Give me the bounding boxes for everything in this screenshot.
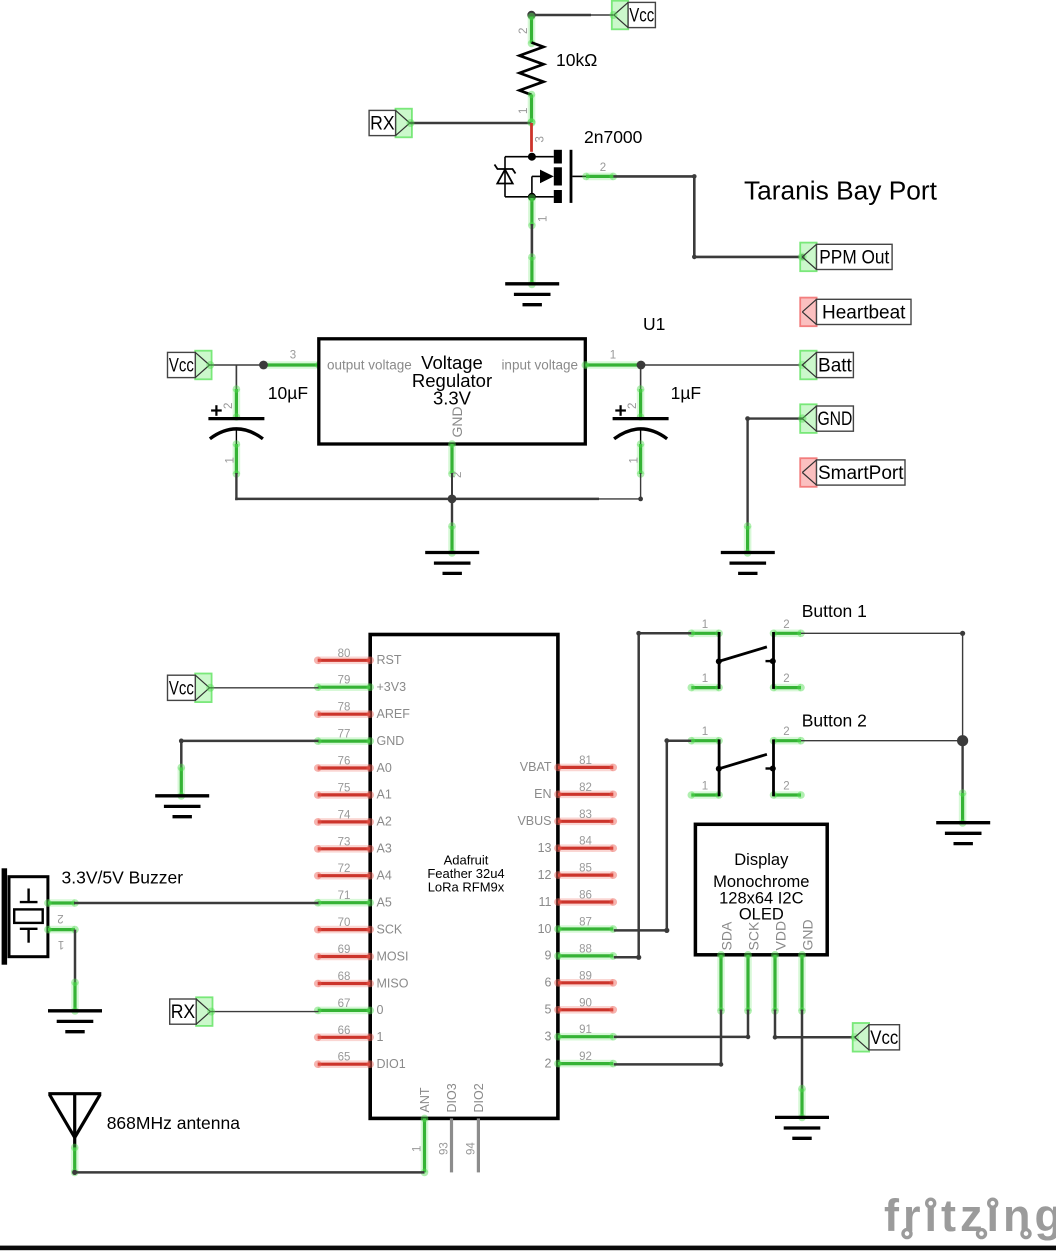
svg-text:OLED: OLED <box>739 906 784 924</box>
wire GND label to ground <box>745 414 806 527</box>
net label Batt <box>800 351 853 380</box>
svg-text:2: 2 <box>600 162 606 174</box>
svg-text:RST: RST <box>377 653 402 667</box>
svg-text:868MHz antenna: 868MHz antenna <box>107 1113 241 1133</box>
Feather pin 88 (9) stub <box>558 952 613 960</box>
svg-text:1: 1 <box>412 1146 424 1152</box>
svg-text:1: 1 <box>702 726 708 738</box>
Feather pin 77 (GND) stub <box>318 737 371 745</box>
buzzer BZ1 (3.3V/5V Buzzer) <box>2 868 48 964</box>
svg-text:66: 66 <box>338 1025 351 1037</box>
buzzer pin 2 stub <box>48 899 75 907</box>
Feather pin 93 (DIO3) stub <box>450 1118 453 1172</box>
svg-text:2: 2 <box>627 403 639 409</box>
svg-text:9: 9 <box>545 949 552 963</box>
svg-text:DIO3: DIO3 <box>445 1083 459 1112</box>
Feather pin 89 (6) stub <box>558 979 613 987</box>
svg-text:6: 6 <box>545 976 552 990</box>
svg-text:70: 70 <box>338 917 351 929</box>
svg-text:71: 71 <box>338 890 351 902</box>
ground (buzzer) <box>48 1011 102 1032</box>
svg-text:Heartbeat: Heartbeat <box>822 303 906 324</box>
net label GND <box>800 404 853 433</box>
display U3 (OLED) box <box>695 824 827 955</box>
svg-text:2: 2 <box>783 619 789 631</box>
Feather pin 71 (A5) stub <box>318 899 371 907</box>
wire (red) gate node to Q1 pin 3 <box>530 123 533 152</box>
svg-text:90: 90 <box>579 997 592 1009</box>
svg-text:10: 10 <box>538 922 552 936</box>
svg-text:75: 75 <box>338 782 351 794</box>
ground pin stub (top ground) <box>528 257 536 285</box>
wire input node to Batt <box>641 361 807 369</box>
net label PPM Out <box>800 243 892 272</box>
svg-text:2n7000: 2n7000 <box>584 127 643 147</box>
Feather pin 76 (A0) stub <box>318 764 371 772</box>
svg-text:RX: RX <box>171 1002 196 1023</box>
wire display SCK to feather pin 3 <box>614 1010 751 1040</box>
wire Vcc to +3V3 pin <box>206 684 318 692</box>
svg-text:3: 3 <box>545 1030 552 1044</box>
Feather pin 92 (2) stub <box>558 1060 613 1068</box>
fritzing logo <box>884 1190 1056 1241</box>
svg-text:LoRa RFM9x: LoRa RFM9x <box>428 880 505 895</box>
svg-text:5: 5 <box>545 1003 552 1017</box>
node antenna wire corner <box>72 1170 77 1175</box>
svg-text:GND: GND <box>377 734 405 748</box>
junction node ground rail <box>448 495 457 504</box>
svg-text:1: 1 <box>702 619 708 631</box>
svg-text:0: 0 <box>377 1003 384 1017</box>
svg-text:2: 2 <box>518 28 530 34</box>
svg-text:Button 1: Button 1 <box>802 601 867 621</box>
svg-text:67: 67 <box>338 998 351 1010</box>
wire button1 pin2 to ground net <box>801 631 965 741</box>
svg-text:RX: RX <box>370 114 395 135</box>
Feather pin 90 (5) stub <box>558 1006 613 1014</box>
Feather pin 85 (12) stub <box>558 871 613 879</box>
svg-text:1: 1 <box>629 457 641 463</box>
ground rail wire <box>235 498 640 501</box>
Feather pin 74 (A2) stub <box>318 818 371 826</box>
wire button2 pin1 to feather pin 10 <box>614 738 692 933</box>
ground pin stub (buzzer) <box>71 982 79 1011</box>
svg-text:A1: A1 <box>377 788 392 802</box>
svg-text:Batt: Batt <box>818 356 853 377</box>
svg-text:1: 1 <box>702 673 708 685</box>
svg-text:1: 1 <box>58 938 64 950</box>
svg-text:2: 2 <box>783 673 789 685</box>
svg-text:AREF: AREF <box>377 707 411 721</box>
junction node output voltage <box>259 361 268 370</box>
svg-text:87: 87 <box>579 917 592 929</box>
svg-text:Button 2: Button 2 <box>802 711 867 731</box>
svg-text:A0: A0 <box>377 761 392 775</box>
net label Vcc (display VDD) <box>853 1023 900 1052</box>
Feather pin 79 (+3V3) stub <box>318 683 371 691</box>
ground (feather GND) <box>155 796 209 817</box>
svg-text:Monochrome: Monochrome <box>713 873 809 891</box>
U1 pin 1 stub (input voltage) <box>585 361 641 369</box>
svg-text:12: 12 <box>538 868 552 882</box>
ground pin stub (regulator ground) <box>448 526 456 553</box>
svg-text:2: 2 <box>452 472 464 478</box>
wire U1 GND pin to rail <box>451 473 453 499</box>
ground (GND net) <box>721 553 775 574</box>
Feather pin 83 (VBUS) stub <box>558 817 613 825</box>
svg-text:13: 13 <box>538 841 552 855</box>
svg-text:2: 2 <box>783 780 789 792</box>
net label Heartbeat <box>800 298 911 327</box>
wire display GND to ground <box>801 1010 804 1090</box>
Feather pin 67 (0) stub <box>318 1007 371 1015</box>
Feather pin 81 (VBAT) stub <box>558 764 613 772</box>
svg-text:1: 1 <box>610 350 616 362</box>
svg-text:77: 77 <box>338 729 351 741</box>
node: gate of Q1 (glow) <box>527 118 535 126</box>
junction node at resistor top <box>527 11 535 19</box>
svg-text:1: 1 <box>224 457 236 463</box>
display pin GND stub <box>798 955 806 1011</box>
svg-text:1µF: 1µF <box>671 383 702 403</box>
svg-text:93: 93 <box>439 1142 451 1155</box>
Feather pin 91 (3) stub <box>558 1033 613 1041</box>
ground (buttons) <box>936 823 990 844</box>
Feather pin 1 (ANT) stub <box>421 1118 429 1172</box>
Feather pin 80 (RST) stub <box>318 656 371 664</box>
svg-text:input voltage: input voltage <box>501 358 578 373</box>
svg-text:VBUS: VBUS <box>517 814 551 828</box>
net label SmartPort <box>800 458 905 487</box>
wire RX to pin 0 <box>207 1008 318 1016</box>
ground (below regulator) <box>425 553 479 574</box>
svg-text:GND: GND <box>800 919 816 950</box>
svg-text:SmartPort: SmartPort <box>818 463 904 484</box>
svg-text:76: 76 <box>338 756 351 768</box>
wire buzzer to A5 <box>74 902 319 905</box>
svg-text:output voltage: output voltage <box>327 358 412 373</box>
svg-text:10kΩ: 10kΩ <box>556 50 597 70</box>
pushbutton button S2 <box>688 737 805 799</box>
svg-text:91: 91 <box>579 1024 592 1036</box>
resistor R1 10k <box>520 43 544 95</box>
Q1 pin 1 stub (source) <box>528 198 536 226</box>
svg-text:A3: A3 <box>377 842 392 856</box>
wire button1 pin1 to feather pin 9 <box>614 631 692 960</box>
svg-text:GND: GND <box>817 409 852 430</box>
resistor 10k pin 2 stub <box>528 17 536 44</box>
svg-text:92: 92 <box>579 1051 592 1063</box>
svg-text:78: 78 <box>338 702 351 714</box>
pushbutton button S1 <box>688 630 805 692</box>
Feather pin 82 (EN) stub <box>558 790 613 798</box>
net label Vcc (to regulator output) <box>168 351 212 380</box>
ground pin stub (display) <box>798 1089 806 1118</box>
svg-text:Vcc: Vcc <box>629 6 654 27</box>
Feather pin 65 (DIO1) stub <box>318 1060 371 1068</box>
svg-text:1: 1 <box>538 216 550 222</box>
svg-text:68: 68 <box>338 971 351 983</box>
svg-text:82: 82 <box>579 782 592 794</box>
ground (below Q1) <box>505 284 559 305</box>
svg-text:85: 85 <box>579 863 592 875</box>
ground (display) <box>775 1117 829 1138</box>
display pin SCK stub <box>744 955 752 1011</box>
wire Vcc to output node <box>206 361 263 369</box>
wire Q1 drain to PPM Out <box>613 174 806 261</box>
svg-text:VDD: VDD <box>773 921 789 951</box>
svg-text:Taranis Bay Port: Taranis Bay Port <box>744 178 937 206</box>
svg-text:GND: GND <box>449 406 465 437</box>
ground pin stub (GND net) <box>744 526 752 553</box>
svg-text:DIO1: DIO1 <box>377 1057 406 1071</box>
svg-text:Display: Display <box>734 851 789 869</box>
Feather pin 72 (A4) stub <box>318 872 371 880</box>
svg-text:3: 3 <box>290 350 296 362</box>
svg-text:1: 1 <box>702 780 708 792</box>
Feather pin 75 (A1) stub <box>318 791 371 799</box>
svg-text:MISO: MISO <box>377 976 409 990</box>
Feather pin 68 (MISO) stub <box>318 980 371 988</box>
svg-text:88: 88 <box>579 943 592 955</box>
svg-text:2: 2 <box>545 1056 552 1070</box>
wire display VDD to Vcc <box>773 1010 859 1042</box>
svg-text:3: 3 <box>535 136 547 142</box>
ground pin stub (feather GND) <box>178 767 186 796</box>
Feather pin 70 (SCK) stub <box>318 926 371 934</box>
Feather pin 84 (13) stub <box>558 844 613 852</box>
wire button2 pin2 to junction <box>801 740 963 742</box>
svg-text:1: 1 <box>377 1030 384 1044</box>
svg-text:65: 65 <box>338 1052 351 1064</box>
wire GND pin to ground (left) <box>179 739 319 769</box>
junction node button ground net <box>957 735 968 746</box>
svg-text:1: 1 <box>518 108 530 114</box>
wire junction down to ground <box>961 741 963 794</box>
wire input node down to C2 <box>640 365 642 391</box>
svg-text:+3V3: +3V3 <box>377 680 407 694</box>
net label Vcc (to +3V3) <box>168 674 212 703</box>
wire junction down to ground <box>451 499 453 527</box>
wire Vcc to resistor top <box>532 11 618 19</box>
svg-text:VBAT: VBAT <box>520 760 552 774</box>
svg-text:Vcc: Vcc <box>169 678 194 699</box>
Feather pin 78 (AREF) stub <box>318 710 371 718</box>
wire C2 to ground rail <box>638 473 643 501</box>
junction node input voltage <box>637 361 646 370</box>
wire RX to gate node <box>407 119 532 127</box>
svg-text:SCK: SCK <box>746 921 762 950</box>
Feather pin 94 (DIO2) stub <box>477 1118 480 1172</box>
capacitor C1 10uF <box>208 365 264 478</box>
svg-text:72: 72 <box>338 863 351 875</box>
svg-text:3.3V/5V Buzzer: 3.3V/5V Buzzer <box>62 868 184 888</box>
net label Vcc (top, to resistor) <box>612 1 656 30</box>
Adafruit Feather 32u4 U2 box <box>370 635 558 1119</box>
wire Q1 source to ground <box>531 224 534 259</box>
svg-text:83: 83 <box>579 809 592 821</box>
wire C1 to ground rail <box>235 473 237 500</box>
svg-text:11: 11 <box>539 895 552 909</box>
svg-text:DIO2: DIO2 <box>472 1083 486 1112</box>
svg-text:Vcc: Vcc <box>870 1028 898 1049</box>
svg-text:80: 80 <box>338 648 351 660</box>
ground pin stub (buttons) <box>959 793 967 823</box>
display pin SDA stub <box>717 955 725 1011</box>
capacitor C2 1uF <box>613 365 669 478</box>
svg-text:73: 73 <box>338 836 351 848</box>
wire output node down to C1 <box>235 365 237 391</box>
svg-text:U1: U1 <box>643 314 665 334</box>
svg-text:PPM Out: PPM Out <box>819 248 890 269</box>
Feather pin 73 (A3) stub <box>318 845 371 853</box>
svg-text:SCK: SCK <box>377 922 403 936</box>
svg-text:3.3V: 3.3V <box>433 388 472 409</box>
svg-text:2: 2 <box>223 403 235 409</box>
svg-text:69: 69 <box>338 944 351 956</box>
voltage regulator U1 box <box>319 339 586 444</box>
wire antenna to ANT pin <box>75 1171 425 1174</box>
svg-text:SDA: SDA <box>719 921 735 950</box>
svg-text:10µF: 10µF <box>268 383 308 403</box>
net label RX (to gate) <box>369 109 412 138</box>
svg-text:94: 94 <box>465 1142 477 1155</box>
wire buzzer pin1 to ground <box>74 930 77 984</box>
net label RX (to pin 0) <box>170 997 213 1026</box>
Feather pin 66 (1) stub <box>318 1034 371 1042</box>
Feather pin 69 (MOSI) stub <box>318 953 371 961</box>
svg-text:A4: A4 <box>377 869 392 883</box>
transistor Q1 2n7000 <box>495 150 588 203</box>
Feather pin 87 (10) stub <box>558 925 613 933</box>
buzzer pin 1 stub <box>48 926 75 934</box>
U1 pin 3 stub (output voltage) <box>264 361 319 369</box>
svg-text:EN: EN <box>534 787 551 801</box>
svg-text:ANT: ANT <box>418 1087 432 1112</box>
svg-text:A2: A2 <box>377 815 392 829</box>
svg-text:2: 2 <box>783 726 789 738</box>
svg-text:89: 89 <box>579 970 592 982</box>
antenna pin stub <box>71 1147 79 1172</box>
svg-text:81: 81 <box>579 755 592 767</box>
svg-text:MOSI: MOSI <box>377 949 409 963</box>
svg-text:86: 86 <box>579 890 592 902</box>
svg-text:Vcc: Vcc <box>169 356 194 377</box>
svg-text:2: 2 <box>57 912 63 924</box>
svg-text:84: 84 <box>579 836 592 848</box>
Feather pin 86 (11) stub <box>558 898 613 906</box>
antenna ANT1 868MHz <box>48 1094 101 1149</box>
svg-text:A5: A5 <box>377 896 392 910</box>
display pin VDD stub <box>771 955 779 1011</box>
Q1 pin 2 stub <box>586 173 613 181</box>
svg-text:79: 79 <box>338 675 351 687</box>
wire display SDA to feather pin 2 <box>614 1010 724 1067</box>
resistor 10k pin 1 stub <box>528 95 536 123</box>
svg-text:74: 74 <box>338 809 351 821</box>
footer rule <box>0 1246 1056 1251</box>
U1 pin 2 stub (GND) <box>448 444 456 474</box>
